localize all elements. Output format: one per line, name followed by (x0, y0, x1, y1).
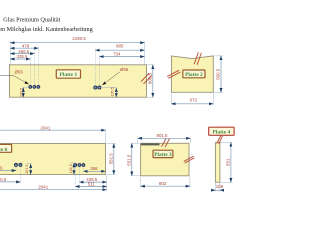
dim 619 P6 (cut) (0, 170, 16, 172)
svg-text:165.5: 165.5 (111, 87, 115, 96)
extension stub top right P4 (221, 141, 233, 143)
hole P1 R1 (94, 86, 97, 89)
dim 551 vertical P4 (230, 142, 232, 182)
dim 600.5 vertical right P1 (152, 65, 154, 97)
extension stub top right edge P6 (107, 143, 116, 145)
plate Platte 4 (215, 142, 220, 182)
dim 805 (95, 49, 144, 51)
vdim 165.5 left P1 (22, 88, 24, 98)
hole P6 L1 (15, 163, 18, 166)
svg-text:335.5: 335.5 (17, 54, 29, 59)
tick left hole vdim P1 (23, 86, 28, 88)
vdim 151.5 right P6 (73, 163, 75, 175)
svg-text:Platte 6: Platte 6 (0, 147, 8, 153)
plate Platte 2 (171, 56, 213, 92)
edge mark P1 right (141, 73, 149, 81)
plate Platte 3 (141, 143, 189, 176)
extension stub bottom right P2 (215, 91, 223, 93)
svg-text:801.5: 801.5 (157, 133, 169, 138)
extension line right P1 (144, 41, 146, 64)
dim 551.5 vertical P3 (131, 143, 133, 176)
hole P6 R1 (74, 164, 77, 167)
hole P6 R3 (82, 164, 85, 167)
leader right Ø65 (102, 72, 120, 85)
svg-text:511: 511 (88, 182, 96, 187)
extension hole1 right group P1 (94, 49, 96, 86)
dim 551.5 vertical P6 (113, 144, 115, 175)
extension stub top right P1 (147, 64, 154, 66)
extension hole R2 down P6 (78, 167, 80, 183)
hole P1 L1 (29, 86, 32, 89)
plate Platte 6 (0, 144, 106, 175)
dim 368 P6 (83, 170, 105, 172)
dim 2041 top P6 (0, 129, 106, 131)
extension hole R3 down P6 (82, 167, 84, 172)
svg-text:478: 478 (22, 43, 30, 48)
dim 672 P2 (171, 103, 213, 105)
edge mark P4 top (217, 136, 221, 143)
svg-text:Ø65: Ø65 (120, 67, 129, 72)
svg-text:560.5: 560.5 (216, 68, 221, 80)
extension stub bottom right P1 (147, 96, 154, 98)
extension stub bottom left side P3 (131, 175, 140, 177)
vdim 165.5 right P1 (115, 88, 117, 97)
dim 801.5 P3 (138, 137, 191, 139)
svg-text:551: 551 (226, 158, 231, 166)
label box Platte 2 (183, 70, 205, 78)
dim 478 (10, 47, 38, 49)
extension bottom left P2 (170, 94, 172, 106)
svg-text:551.5: 551.5 (109, 153, 114, 165)
extension bottom left P3 (140, 177, 142, 188)
label box Platte 6 (0, 144, 12, 152)
svg-text:802: 802 (159, 181, 167, 186)
top edge dark bar P3 (141, 143, 160, 145)
dim 2041 bottom P6 (0, 189, 107, 191)
edge mark P2 top (194, 53, 198, 64)
dim 802 P3 (141, 185, 190, 187)
extension bottom right P2 (212, 94, 214, 106)
tick left vdim P6 (26, 162, 32, 164)
svg-text:734: 734 (113, 51, 121, 56)
extension hole1 left group P1 (29, 58, 31, 86)
svg-text:Platte 4: Platte 4 (213, 130, 231, 136)
dim 511 P6 (75, 186, 106, 188)
svg-text:165.5: 165.5 (19, 88, 23, 97)
extension hole L1 down P6 (15, 167, 17, 172)
dim 690.5 P6 (cut) (0, 181, 20, 183)
svg-text:151.5: 151.5 (69, 164, 73, 173)
label box Platte 3 (153, 150, 173, 157)
extension stub bottom right edge P6 (107, 174, 116, 176)
extension bottom right P3 (189, 177, 191, 188)
svg-text:466.5: 466.5 (18, 49, 30, 54)
dim 109 P4 (211, 189, 215, 191)
svg-text:672: 672 (190, 98, 198, 103)
tick right vdim P6 (70, 162, 74, 164)
svg-text:2190.5: 2190.5 (72, 36, 86, 41)
extension hole3 left group P1 (37, 47, 39, 85)
svg-text:805: 805 (116, 44, 124, 49)
extension bottom left P4 (214, 183, 216, 192)
extension hole2 right group P1 (98, 55, 100, 85)
dim 439.5 P6 (79, 181, 106, 183)
svg-text:109: 109 (216, 184, 224, 189)
svg-text:cm Milchglas inkl. Kantenbearb: cm Milchglas inkl. Kantenbearbeitung (0, 26, 93, 33)
svg-text:690.5: 690.5 (0, 177, 7, 182)
vdim 151.5 left P6 (30, 164, 32, 175)
svg-text:Glas Premium Qualität: Glas Premium Qualität (3, 17, 60, 24)
dim 466.5 (10, 53, 34, 55)
tick right hole vdim P1 (101, 86, 117, 88)
extension bottom right P4 (219, 183, 221, 192)
svg-text:551.5: 551.5 (127, 154, 132, 166)
edge mark P2 left (168, 70, 179, 76)
svg-text:2041: 2041 (41, 126, 51, 131)
hole P6 L2 (19, 163, 22, 166)
svg-text:2041: 2041 (38, 185, 48, 190)
dim 734 (99, 56, 144, 58)
svg-text:600.5: 600.5 (148, 73, 153, 85)
svg-text:Ø65: Ø65 (15, 69, 24, 74)
svg-text:Platte 2: Platte 2 (185, 72, 203, 78)
extension line left P1 (9, 41, 11, 64)
plate Platte 1 (9, 65, 146, 97)
dim 335.5 (10, 58, 30, 60)
hole P1 L2 (33, 86, 36, 89)
svg-text:151.5: 151.5 (25, 165, 29, 174)
extension top right P3 (189, 137, 191, 143)
dim 560.5 vertical P2 (220, 56, 222, 92)
leader left Ø65 (0, 76, 29, 85)
svg-text:Platte 1: Platte 1 (60, 72, 78, 78)
extension top left P3 (137, 137, 139, 143)
label box Platte 4 (209, 127, 234, 135)
extension hole R1 down P6 (74, 167, 76, 188)
dim 2190.5 (10, 42, 144, 44)
extension stub top right P2 (215, 55, 223, 57)
hole P1 L3 (37, 86, 40, 89)
extension bottom right corner P6 (106, 175, 108, 191)
hole P6 R2 (78, 164, 81, 167)
svg-text:Platte 3: Platte 3 (154, 152, 172, 158)
extension hole L2 down P6 (19, 167, 21, 183)
extension stub bottom right P4 (221, 181, 233, 183)
extension top right P6 (105, 129, 107, 143)
extension stub top left side P3 (131, 142, 140, 144)
label box Platte 1 (56, 70, 80, 78)
extension hole2 left group P1 (33, 52, 35, 85)
edge mark P3 right (184, 156, 193, 161)
hole P1 R2 (98, 86, 101, 89)
edge mark P3 top (162, 139, 166, 147)
svg-text:368: 368 (90, 166, 98, 171)
